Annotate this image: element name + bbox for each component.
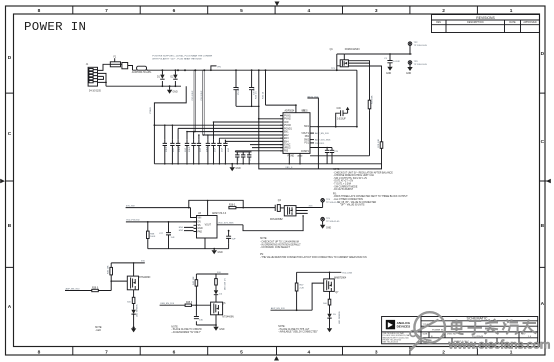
svg-text:100K: 100K — [150, 236, 156, 238]
svg-text:AGND: AGND — [298, 155, 304, 158]
resistor R36 — [229, 204, 236, 208]
U2 right pin names — [301, 126, 310, 153]
svg-text:www.elecfans.com: www.elecfans.com — [448, 337, 551, 351]
svg-text:2: 2 — [442, 8, 445, 14]
notes block mid — [260, 238, 367, 259]
notes circuit1 — [95, 327, 102, 332]
svg-text:3: 3 — [375, 8, 378, 14]
svg-text:1UF: 1UF — [173, 147, 175, 152]
svg-text:POWER IN: POWER IN — [24, 20, 86, 34]
bottom circuit 3 : top wire — [297, 271, 342, 273]
svg-text:ADM7170-3.3: ADM7170-3.3 — [212, 212, 227, 215]
svg-text:EN2: EN2 — [284, 135, 289, 137]
capacitor C4 chain — [249, 69, 255, 107]
fuse F1 — [110, 62, 120, 67]
svg-text:A: A — [541, 301, 545, 307]
svg-text:VDD_3V3_SNS: VDD_3V3_SNS — [218, 223, 234, 225]
U3 left pin stubs — [194, 218, 197, 232]
svg-text:1UF: 1UF — [238, 156, 240, 161]
MOSFET Q6 — [211, 302, 234, 319]
svg-text:4: 4 — [307, 8, 310, 14]
zone tick marks right — [540, 93, 546, 267]
svg-text:NOTE:: NOTE: — [260, 238, 267, 240]
svg-text:NTS4409N: NTS4409N — [222, 317, 234, 319]
wire U2 pin13 row — [235, 150, 283, 152]
svg-text:5: 5 — [240, 350, 243, 356]
svg-text:VREG: VREG — [301, 110, 308, 112]
svg-text:1UF: 1UF — [232, 239, 237, 241]
svg-text:- OUT1 AT>2T + 5V: - OUT1 AT>2T + 5V — [333, 180, 354, 183]
net stub ADP_EN label — [310, 132, 314, 134]
svg-text:EN1: EN1 — [284, 132, 289, 134]
svg-text:COMP1: COMP1 — [301, 151, 310, 153]
svg-text:FAX: 781-461-3113: FAX: 781-461-3113 — [383, 341, 398, 344]
power flag TP4 — [321, 199, 340, 208]
capacitor C21 under U2 — [241, 152, 245, 164]
capacitor C28 output — [226, 230, 236, 244]
svg-text:R43 10K: R43 10K — [193, 276, 195, 285]
svg-text:- SW 1 OUTPUTS, SW 2 AT 1.2V: - SW 1 OUTPUTS, SW 2 AT 1.2V — [333, 177, 368, 180]
diode D1 — [157, 70, 165, 86]
wire Q1 top rail to flags — [344, 53, 411, 55]
wire input gnd return to cap bus — [154, 86, 186, 164]
svg-text:ADP_5V0_SNS: ADP_5V0_SNS — [315, 139, 331, 142]
svg-text:DESCRIPTION: DESCRIPTION — [467, 21, 484, 24]
svg-text:ACM7060-701-2PL: ACM7060-701-2PL — [132, 71, 152, 74]
svg-text:C15 10UF: C15 10UF — [192, 90, 194, 101]
ground U3 — [213, 249, 215, 251]
svg-text:GND: GND — [406, 73, 411, 75]
svg-text:- T OUT1 + 3.3VA: - T OUT1 + 3.3VA — [333, 183, 352, 186]
capacitor C12 — [206, 140, 210, 164]
wire U3 gnd bus — [148, 238, 229, 249]
wire feed rail down right of U2 — [356, 70, 358, 127]
MOSFET Q7 — [324, 277, 347, 294]
svg-text:1UF: 1UF — [222, 147, 224, 152]
wire rail to Q1 gate riser — [337, 54, 345, 70]
wire Q7 drain up — [329, 272, 331, 279]
U2 bottom pins to gnd bus — [289, 153, 300, 163]
ground circuit3 — [327, 328, 332, 332]
resistor R41 — [127, 297, 135, 303]
zone labels bottom 8..1 — [38, 350, 513, 356]
fold mark arrow top center — [275, 2, 280, 7]
svg-text:EN4: EN4 — [284, 141, 289, 143]
svg-text:0.01UF: 0.01UF — [393, 61, 401, 63]
notes circuit2 — [171, 326, 202, 333]
svg-text:FDMC012N03: FDMC012N03 — [345, 49, 360, 51]
svg-text:8: 8 — [38, 8, 41, 14]
ground input section — [169, 86, 171, 90]
wire U2 SW2 to riser — [310, 155, 370, 157]
svg-text:- IN OPERATING ROTATION DEFAUL: - IN OPERATING ROTATION DEFAULT — [260, 243, 301, 246]
wire Q1 source to R31 column — [348, 66, 381, 142]
svg-text:5: 5 — [240, 8, 243, 14]
junction dot gnd return — [154, 124, 156, 126]
watermark logo circle — [410, 312, 550, 351]
bus wire C16 column from rail — [203, 70, 205, 135]
title block — [382, 316, 538, 343]
svg-text:- LED: - LED — [95, 330, 101, 332]
svg-text:R29 1.5: R29 1.5 — [256, 91, 258, 99]
wire Q5 source down — [133, 290, 135, 298]
capacitor C19 — [223, 140, 227, 164]
svg-text:GND: GND — [218, 252, 223, 254]
svg-text:5V0_PGOOD: 5V0_PGOOD — [126, 220, 140, 222]
wire J1 pins to gnd bus — [98, 73, 107, 86]
bottom circuit 2 : feed wire — [196, 273, 228, 275]
wire gnd bus under cap bank — [154, 163, 381, 165]
resistor R48 — [323, 299, 331, 305]
svg-text:PVIN2: PVIN2 — [284, 119, 291, 121]
svg-text:GND: GND — [219, 329, 224, 331]
svg-text:- AVAILABLE "USB_5V CONNECTED": - AVAILABLE "USB_5V CONNECTED" — [278, 331, 318, 334]
cap bank vertical drops — [165, 122, 226, 141]
svg-text:PS:: PS: — [333, 193, 337, 195]
svg-text:APPROVED: APPROVED — [523, 21, 537, 24]
wire fuse to bead to rail — [121, 64, 133, 70]
resistor R40 — [108, 263, 113, 281]
capacitor C10 — [191, 140, 195, 164]
capacitor C7 — [170, 140, 174, 164]
svg-text:0.033UF: 0.033UF — [337, 118, 346, 120]
svg-text:GND: GND — [326, 228, 331, 230]
svg-text:TP 109-01-05: TP 109-01-05 — [326, 221, 340, 223]
wire input net 5V0_SW — [126, 208, 197, 218]
svg-text:- CO BOARD. COM SELECT: - CO BOARD. COM SELECT — [260, 246, 290, 249]
svg-text:PAD: PAD — [198, 230, 203, 233]
wire Q4 output to flag — [296, 208, 323, 214]
svg-text:1UF: 1UF — [214, 147, 216, 152]
net stub ADP_EN input — [65, 281, 111, 290]
svg-text:PS:: PS: — [260, 254, 264, 256]
svg-text:- PLACE CLOSE TO TP5. ALT: - PLACE CLOSE TO TP5. ALT — [278, 328, 310, 331]
svg-text:GND: GND — [173, 92, 178, 94]
cap bank mesh wires to U2 left pins — [154, 122, 283, 148]
junction dots gnd bus — [164, 163, 301, 165]
svg-text:SIZE: SIZE — [423, 334, 428, 336]
resistor R44 — [215, 273, 227, 290]
svg-text:3: 3 — [375, 350, 378, 356]
svg-text:10UF: 10UF — [179, 146, 181, 152]
zone labels top 8..1 — [38, 8, 513, 14]
regulator U3 — [197, 216, 218, 239]
notes circuit3 — [278, 326, 318, 333]
svg-text:5V0_SW: 5V0_SW — [126, 205, 136, 207]
ground flag TP5 — [320, 225, 325, 229]
capacitor C49 bootstrap — [335, 107, 350, 128]
svg-text:- CHOOSE WIDE ROUTING LIMIT 3.: - CHOOSE WIDE ROUTING LIMIT 3.0A — [333, 174, 375, 177]
svg-text:10UF: 10UF — [207, 146, 209, 152]
svg-text:8: 8 — [38, 350, 41, 356]
svg-text:"12_05_05" - VALUE IS CONNECTE: "12_05_05" - VALUE IS CONNECTED — [337, 201, 377, 204]
svg-text:ADP_EN_5V0: ADP_EN_5V0 — [66, 287, 81, 290]
svg-text:PG1: PG1 — [304, 143, 309, 145]
svg-text:C: C — [8, 131, 12, 137]
svg-text:DATE: DATE — [509, 21, 516, 24]
resistor R31 — [378, 138, 383, 148]
wire R41 to D3 — [133, 304, 135, 310]
svg-text:C5 1UF: C5 1UF — [238, 87, 240, 95]
wire R36 to Q4 input — [236, 207, 271, 209]
ground flag TP3 — [407, 67, 412, 71]
zener diode D3 — [131, 304, 138, 328]
ground circuit1 — [131, 328, 136, 332]
Analog Devices logo — [386, 320, 395, 329]
svg-text:10UF: 10UF — [166, 146, 168, 152]
svg-text:1UF: 1UF — [171, 237, 176, 239]
svg-text:R45 0: R45 0 — [186, 302, 193, 304]
svg-text:- CHECKOUT UNIT 5V - REGULATIO: - CHECKOUT UNIT 5V - REGULATION AFTER BA… — [333, 171, 393, 174]
MOSFET Q1 — [330, 49, 361, 67]
capacitor C8 — [176, 140, 180, 164]
svg-text:POWER IN: POWER IN — [432, 329, 443, 331]
resistor R45 series — [185, 302, 193, 306]
svg-text:R36 0: R36 0 — [229, 204, 236, 206]
svg-text:SW1: SW1 — [304, 126, 310, 128]
svg-text:B: B — [8, 223, 12, 229]
wire R29 node into U2 pin2 — [259, 118, 283, 120]
svg-text:- PADS THREE LAYS CONNECTED NE: - PADS THREE LAYS CONNECTED NEXT TO THRE… — [333, 195, 408, 198]
svg-text:1UF: 1UF — [185, 147, 187, 152]
svg-text:- ALL OTHER CONNECTION: - ALL OTHER CONNECTION — [333, 198, 363, 201]
junction dots cap bank — [164, 121, 214, 136]
svg-text:PVIN3: PVIN3 — [284, 125, 291, 127]
MOSFET Q5 — [127, 276, 150, 290]
value labels C20-C22 — [238, 156, 252, 161]
svg-text:- DC AUTO-BURST: - DC AUTO-BURST — [333, 188, 354, 191]
svg-text:C16 10UF: C16 10UF — [201, 90, 203, 101]
svg-text:4: 4 — [307, 350, 310, 356]
svg-text:R31 10K: R31 10K — [378, 138, 380, 147]
svg-text:54-10-5105: 54-10-5105 — [89, 90, 101, 92]
svg-text:SW2: SW2 — [304, 139, 310, 141]
capacitor C25 comp — [326, 147, 338, 164]
svg-text:- ACCESSORIES "5V ONLY": - ACCESSORIES "5V ONLY" — [171, 331, 201, 334]
svg-text:- SW CURRENT MODE: - SW CURRENT MODE — [333, 186, 358, 188]
resistor R47 — [295, 272, 304, 310]
wire input circuit2 — [160, 304, 211, 306]
wire input net PG — [126, 221, 197, 223]
svg-text:FB3: FB3 — [284, 151, 289, 153]
inductor L1 — [137, 66, 147, 70]
svg-text:FB1: FB1 — [305, 136, 310, 138]
svg-text:PGND: PGND — [150, 107, 152, 114]
svg-text:VOUT: VOUT — [205, 225, 212, 227]
wire R30 node into U2 pin1 — [266, 105, 296, 113]
value labels cap bank — [166, 146, 230, 152]
resistor R39 series — [92, 289, 99, 291]
svg-text:C: C — [541, 139, 545, 145]
U2 left pin stubs — [280, 116, 283, 151]
ground circuit2 — [215, 325, 217, 327]
wire gnd bus circuit2 — [196, 315, 216, 325]
wire input circuit3 — [271, 283, 324, 310]
connector J1 — [86, 64, 102, 93]
power flag TP5 — [321, 217, 340, 224]
net stub PGOOD label — [310, 142, 314, 144]
svg-text:ADP5054: ADP5054 — [285, 109, 296, 112]
svg-text:LED GREEN: LED GREEN — [137, 304, 139, 317]
notes block right of U2 — [333, 169, 408, 207]
svg-text:FDS4435BZ: FDS4435BZ — [270, 219, 283, 221]
resistor R38 pulldown — [147, 221, 156, 249]
svg-text:VOUT1: VOUT1 — [301, 133, 309, 135]
diode D2 — [171, 70, 178, 86]
wire Q1 drain pair to SW column — [348, 61, 369, 156]
U2 left pin names — [284, 116, 293, 153]
net label VIN flag — [211, 66, 217, 70]
svg-text:TP 109-01-05: TP 109-01-05 — [414, 64, 428, 66]
svg-text:C49: C49 — [337, 108, 342, 110]
svg-text:REV: REV — [521, 334, 526, 336]
capacitor C20 under U2 — [235, 151, 251, 164]
capacitor C24 comp — [310, 148, 329, 164]
svg-text:1: 1 — [510, 8, 513, 14]
zone tick marks left — [6, 93, 14, 267]
wire loop under bus — [259, 98, 382, 169]
svg-text:NOTE:: NOTE: — [278, 326, 285, 328]
svg-text:PGOOD1: PGOOD1 — [315, 143, 325, 145]
bottom circuit 1 : feed wire — [111, 262, 145, 264]
MOSFET Q4 — [270, 200, 296, 221]
capacitor C27 — [159, 221, 175, 249]
zener diode D4 — [214, 290, 223, 302]
svg-text:VIN: VIN — [198, 217, 202, 219]
svg-text:- PLACE CLOSE TO USB-PD: - PLACE CLOSE TO USB-PD — [171, 328, 202, 331]
junction dot gate circuit2 — [196, 304, 198, 306]
svg-text:R30 10: R30 10 — [263, 91, 265, 99]
svg-text:GND: GND — [198, 228, 203, 230]
svg-text:A: A — [8, 304, 12, 310]
capacitor C6 — [163, 140, 167, 164]
wire J1 pin1 to fuse — [98, 64, 111, 70]
svg-text:1UF: 1UF — [250, 156, 252, 161]
svg-text:"UF" - VALUE IS UNITS: "UF" - VALUE IS UNITS — [340, 204, 365, 207]
svg-text:EN: EN — [198, 222, 202, 224]
zener diode D5 — [327, 311, 341, 328]
zone labels right D C B A — [541, 51, 545, 307]
svg-text:MMBT3904: MMBT3904 — [334, 277, 347, 279]
svg-text:DEVICES: DEVICES — [397, 325, 411, 329]
svg-text:B: B — [541, 223, 545, 229]
resistor R29 column feed — [258, 70, 260, 119]
svg-text:CNF: CNF — [284, 122, 289, 124]
svg-text:7: 7 — [105, 8, 108, 14]
wire U2 SW1 to Q1 drain column — [310, 126, 357, 128]
wire U3 output — [217, 225, 304, 231]
capacitor C3 — [384, 53, 401, 67]
svg-text:D: D — [541, 51, 545, 57]
svg-text:LED GREEN: LED GREEN — [339, 311, 341, 324]
zone labels left D C B A — [8, 55, 12, 310]
svg-text:10UF: 10UF — [189, 146, 191, 152]
fold mark arrow bottom center — [274, 356, 279, 361]
svg-text:TP 109-01-05: TP 109-01-05 — [326, 202, 340, 204]
bus wire C15 column from rail — [194, 70, 196, 131]
zone tick marks bottom — [73, 347, 478, 356]
wire Q4 source down loop — [302, 216, 304, 231]
capacitor C22 under U2 — [247, 152, 251, 164]
svg-text:REV: REV — [436, 21, 441, 24]
testpoint TP1 — [336, 69, 338, 71]
svg-text:FB1_S: FB1_S — [286, 167, 293, 169]
svg-text:NOTE:: NOTE: — [171, 326, 178, 328]
svg-text:2.2K: 2.2K — [300, 287, 305, 289]
svg-text:REVISIONS: REVISIONS — [476, 16, 495, 20]
zone tick marks top — [73, 6, 478, 14]
wire input gnd bus — [106, 85, 181, 87]
capacitor C14 — [217, 140, 221, 164]
resistor R30 column feed — [265, 70, 267, 105]
capacitor C11 — [197, 140, 201, 164]
IC U2 buck regulator — [283, 113, 310, 154]
svg-text:NOTE:: NOTE: — [333, 169, 340, 171]
capacitor C13 — [211, 140, 215, 164]
svg-text:SCHEMATIC: SCHEMATIC — [467, 316, 488, 320]
svg-text:TP 109-01-05: TP 109-01-05 — [414, 45, 428, 47]
wire Q7 source down — [329, 291, 331, 299]
svg-text:GND: GND — [386, 73, 391, 75]
wire Q6 drain to D4 — [215, 301, 217, 303]
wire main VIN rail — [147, 69, 357, 71]
svg-text:NOTE:: NOTE: — [95, 327, 102, 329]
revisions table — [432, 15, 540, 33]
svg-text:R3 100K: R3 100K — [372, 95, 374, 104]
svg-text:PGND1: PGND1 — [284, 128, 293, 130]
svg-text:1UF: 1UF — [200, 147, 202, 152]
svg-text:1UF: 1UF — [228, 147, 230, 152]
svg-text:- THE VALUE RESISTOR CONNECTOR: - THE VALUE RESISTOR CONNECTOR LAYOUT FO… — [260, 256, 367, 259]
svg-text:D: D — [8, 55, 12, 61]
svg-text:SYNC: SYNC — [284, 145, 291, 147]
svg-text:R39 0: R39 0 — [92, 287, 99, 289]
resistor R3 — [368, 95, 373, 110]
capacitor C5 input chain — [233, 70, 239, 106]
wire Q5 drain to top — [133, 263, 135, 276]
U3 pin names — [198, 217, 212, 233]
fold mark arrow right center — [546, 179, 551, 184]
svg-text:PVIN1: PVIN1 — [284, 116, 291, 118]
svg-text:POSITIVE SUPPLIES +12V/3A - P: POSITIVE SUPPLIES +12V/3A - PLUG NEAR TH… — [152, 54, 212, 57]
wire C5 to R29 node — [236, 105, 259, 107]
svg-text:WITH POLARITY "12V" - PLUG NEA: WITH POLARITY "12V" - PLUG NEAR THE EDGE — [152, 57, 202, 60]
svg-text:BST1_5V0: BST1_5V0 — [308, 96, 319, 98]
svg-text:DWG NO: DWG NO — [447, 334, 457, 336]
capacitor C9 — [185, 140, 189, 164]
power flag VOUT1 — [408, 42, 427, 55]
wire gate circuit1 — [111, 280, 127, 282]
resistor R43 — [193, 274, 198, 305]
ferrite bead FB1 — [122, 63, 128, 69]
svg-text:R40 10K: R40 10K — [108, 265, 110, 274]
capacitor C30 gate — [194, 305, 204, 325]
svg-text:2: 2 — [442, 350, 445, 356]
svg-text:6: 6 — [173, 8, 176, 14]
watermark chinese characters (drawn strokes) — [452, 319, 537, 334]
junction dots on rail — [177, 69, 338, 71]
svg-text:7: 7 — [105, 350, 108, 356]
fold mark arrow left center — [0, 179, 5, 184]
svg-text:USB_EN_5V0: USB_EN_5V0 — [160, 303, 175, 305]
svg-text:ADP_EN_5V0: ADP_EN_5V0 — [271, 307, 286, 310]
svg-text:5V0_USB: 5V0_USB — [342, 272, 352, 274]
wire R48 to D5 — [329, 305, 331, 314]
svg-text:ADP_EN_5V0: ADP_EN_5V0 — [315, 132, 330, 135]
wire U3 feedback loop top — [189, 200, 243, 215]
svg-text:DNI 10K 1%: DNI 10K 1% — [225, 278, 227, 290]
junction dots input — [105, 69, 176, 87]
